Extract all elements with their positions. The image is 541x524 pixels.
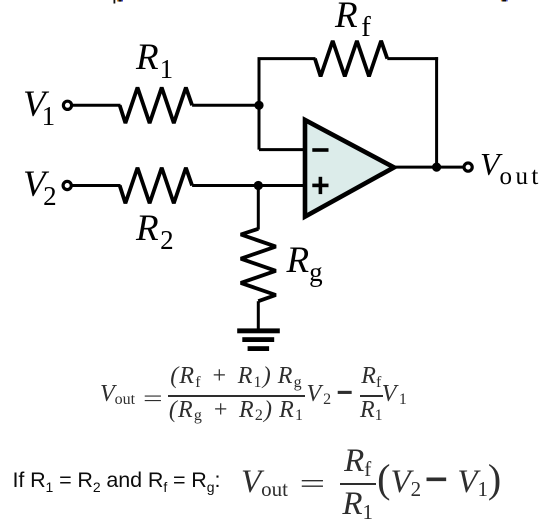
wire V1 terminal to R1 [72, 104, 121, 107]
label R2 [136, 210, 174, 247]
wire R2 to non-inverting input [192, 184, 306, 187]
ground [237, 328, 280, 351]
top edge artifact right [501, 0, 502, 1]
output node junction dot [432, 163, 441, 172]
resistor Rf [315, 41, 387, 77]
wire R1 to node A [192, 104, 259, 107]
resistor Rg [241, 229, 276, 301]
wire feedback top right [387, 57, 438, 60]
op-amp plus sign [312, 177, 328, 194]
resistor R2 [120, 168, 192, 204]
wire feedback top left [258, 57, 316, 60]
label Rg [287, 242, 323, 279]
node A junction dot [254, 101, 263, 110]
node B junction dot [254, 181, 263, 190]
label R1 [136, 39, 173, 76]
wire Rg to ground [257, 301, 260, 330]
op-amp U1 [305, 120, 394, 217]
label Vout [480, 148, 541, 180]
label Rf [335, 0, 371, 34]
equation 2 [241, 442, 501, 523]
wire output [393, 166, 463, 169]
op-amp minus sign [312, 148, 328, 152]
wire node B down to Rg [257, 186, 260, 230]
top edge artifact left [114, 0, 116, 4]
wire inverting input [259, 148, 306, 151]
label V2 [23, 166, 57, 203]
terminal V2 open circle [63, 181, 71, 189]
wire node A vertical (feedback corner down to inverting input) [258, 59, 261, 150]
equation 1 [100, 364, 407, 424]
terminal V1 open circle [63, 101, 71, 109]
wire V2 terminal to R2 [72, 184, 121, 187]
resistor R1 [120, 88, 192, 124]
wire feedback right vertical [435, 57, 438, 167]
label V1 [23, 86, 55, 123]
terminal Vout open circle [464, 163, 472, 171]
condition text [13, 468, 221, 493]
